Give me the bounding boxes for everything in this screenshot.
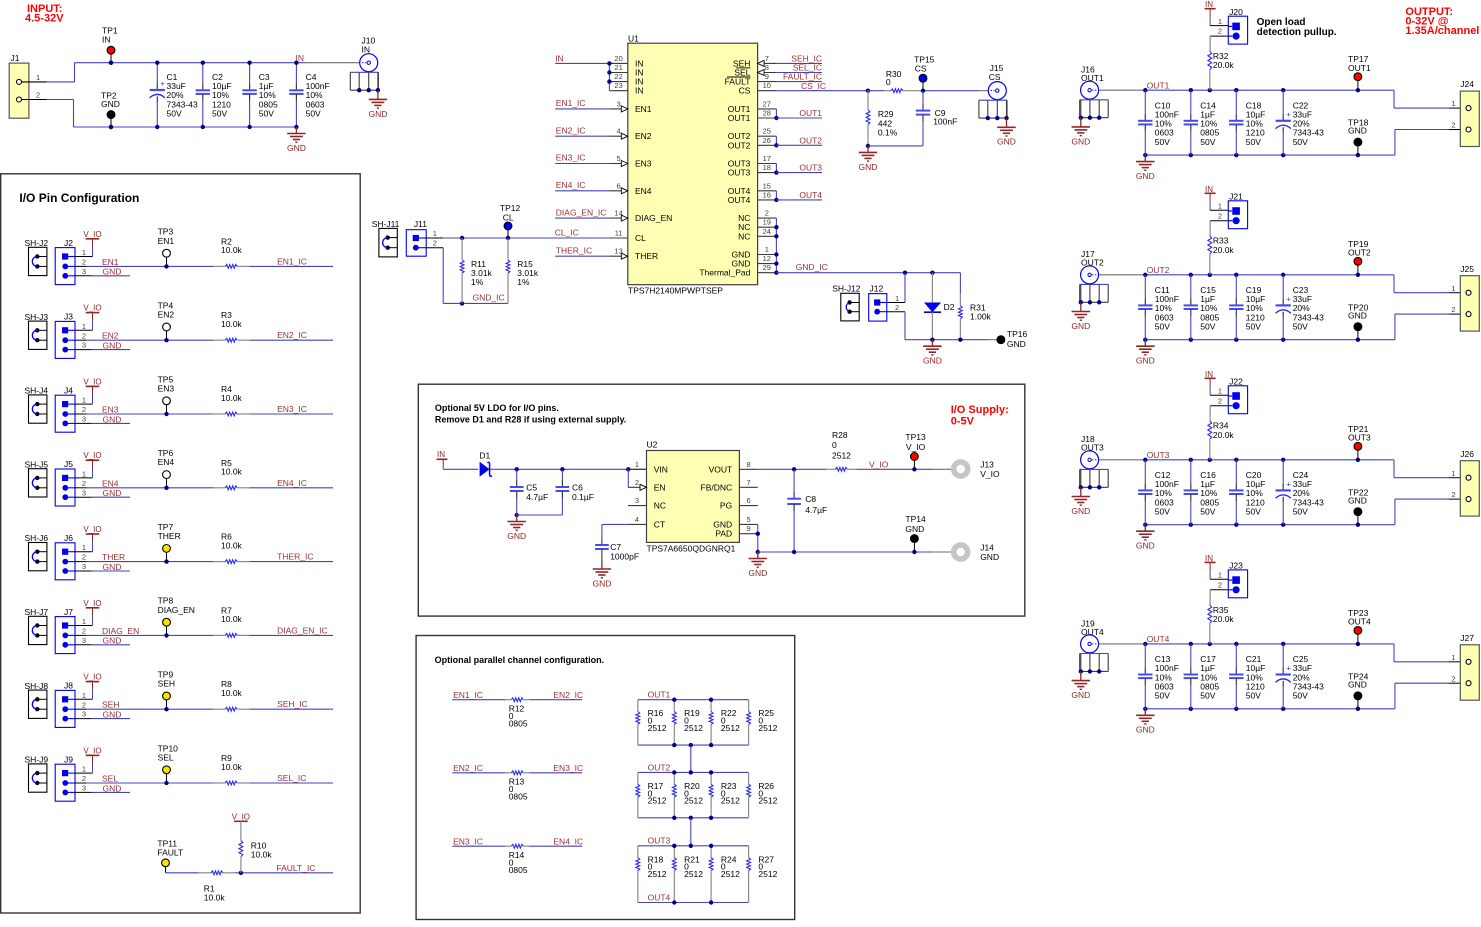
svg-text:19: 19 (763, 218, 771, 227)
svg-text:EN2_IC: EN2_IC (277, 330, 307, 340)
svg-text:1: 1 (895, 294, 899, 303)
svg-text:2: 2 (82, 553, 86, 562)
svg-text:GND: GND (923, 356, 942, 366)
svg-text:FB/DNC: FB/DNC (701, 482, 733, 492)
svg-text:0805: 0805 (509, 865, 528, 875)
svg-text:3: 3 (82, 562, 86, 571)
svg-text:OUT4: OUT4 (799, 190, 822, 200)
svg-text:9: 9 (765, 72, 769, 81)
svg-text:1: 1 (635, 460, 639, 469)
svg-text:IN: IN (555, 53, 564, 63)
svg-text:1: 1 (82, 691, 86, 700)
svg-text:I/O Pin Configuration: I/O Pin Configuration (19, 191, 139, 205)
svg-text:+: + (1286, 664, 1291, 673)
svg-text:Thermal_Pad: Thermal_Pad (699, 268, 750, 278)
svg-text:CT: CT (654, 519, 665, 529)
svg-text:OUT2: OUT2 (648, 762, 671, 772)
svg-text:8: 8 (747, 460, 751, 469)
svg-text:10.0k: 10.0k (251, 850, 273, 860)
svg-text:PG: PG (720, 501, 732, 511)
svg-text:50V: 50V (1200, 321, 1215, 331)
svg-text:2: 2 (82, 405, 86, 414)
svg-text:50V: 50V (1155, 691, 1170, 701)
svg-text:EN4: EN4 (635, 186, 652, 196)
svg-text:VIN: VIN (654, 464, 668, 474)
svg-text:2512: 2512 (684, 796, 703, 806)
svg-text:J22: J22 (1229, 377, 1243, 387)
svg-text:Optional 5V LDO for I/O pins.: Optional 5V LDO for I/O pins. (435, 403, 559, 413)
svg-text:GND: GND (287, 143, 306, 153)
svg-text:EN1: EN1 (158, 236, 175, 246)
svg-text:7: 7 (765, 54, 769, 63)
svg-text:18: 18 (763, 163, 771, 172)
svg-text:J3: J3 (64, 312, 73, 322)
svg-text:GND: GND (103, 414, 122, 424)
svg-text:25: 25 (763, 127, 771, 136)
svg-text:J24: J24 (1460, 79, 1474, 89)
svg-text:EN3_IC: EN3_IC (453, 836, 483, 846)
svg-text:2512: 2512 (721, 723, 740, 733)
svg-text:26: 26 (763, 136, 771, 145)
svg-text:J9: J9 (64, 754, 73, 764)
svg-text:21: 21 (614, 63, 622, 72)
svg-text:THER: THER (635, 251, 658, 261)
svg-text:2: 2 (82, 479, 86, 488)
svg-text:J23: J23 (1229, 561, 1243, 571)
svg-text:OUT2: OUT2 (1147, 265, 1170, 275)
svg-text:GND: GND (507, 531, 526, 541)
svg-text:0.1µF: 0.1µF (572, 492, 594, 502)
svg-text:EN4: EN4 (102, 478, 119, 488)
svg-text:V_IO: V_IO (232, 812, 250, 821)
svg-text:10.0k: 10.0k (221, 467, 243, 477)
svg-text:2: 2 (1218, 211, 1222, 220)
svg-text:3: 3 (82, 341, 86, 350)
svg-text:2512: 2512 (758, 869, 777, 879)
svg-text:2: 2 (82, 258, 86, 267)
svg-text:EN1_IC: EN1_IC (277, 256, 307, 266)
svg-text:4.5-32V: 4.5-32V (25, 13, 64, 25)
svg-text:GND: GND (1136, 541, 1155, 551)
svg-text:3: 3 (82, 415, 86, 424)
svg-text:3: 3 (82, 267, 86, 276)
svg-text:FAULT_IC: FAULT_IC (276, 863, 315, 873)
svg-text:THER_IC: THER_IC (556, 245, 592, 255)
svg-text:1: 1 (82, 322, 86, 331)
svg-text:J26: J26 (1460, 449, 1474, 459)
svg-text:EN2_IC: EN2_IC (453, 763, 483, 773)
svg-text:EN4: EN4 (158, 457, 175, 467)
svg-text:1: 1 (82, 765, 86, 774)
svg-text:0-5V: 0-5V (951, 416, 975, 428)
svg-text:THER_IC: THER_IC (277, 552, 313, 562)
svg-text:DIAG_EN_IC: DIAG_EN_IC (277, 625, 328, 635)
svg-text:C5: C5 (526, 482, 537, 492)
svg-text:EN3_IC: EN3_IC (277, 404, 307, 414)
svg-text:detection pullup.: detection pullup. (1257, 27, 1337, 38)
svg-text:1: 1 (1451, 99, 1455, 108)
svg-text:TP14: TP14 (905, 514, 926, 524)
svg-text:V_IO: V_IO (906, 442, 926, 452)
svg-text:J5: J5 (64, 459, 73, 469)
svg-text:50V: 50V (1246, 137, 1261, 147)
svg-text:2: 2 (1218, 396, 1222, 405)
svg-text:24: 24 (763, 227, 771, 236)
svg-text:10.0k: 10.0k (221, 688, 243, 698)
svg-text:U2: U2 (647, 440, 658, 450)
svg-text:GND: GND (592, 578, 611, 588)
svg-text:EN2_IC: EN2_IC (553, 690, 583, 700)
svg-text:GND: GND (1136, 356, 1155, 366)
svg-text:GND: GND (103, 710, 122, 720)
svg-text:1000pF: 1000pF (610, 552, 639, 562)
svg-text:EN1_IC: EN1_IC (556, 98, 586, 108)
svg-text:4.7µF: 4.7µF (526, 492, 548, 502)
svg-text:GND: GND (103, 488, 122, 498)
svg-text:R28: R28 (832, 430, 848, 440)
svg-text:2: 2 (1218, 27, 1222, 36)
svg-text:50V: 50V (1200, 506, 1215, 516)
svg-text:OUT2: OUT2 (799, 135, 822, 145)
svg-text:CL: CL (503, 212, 514, 222)
svg-text:1.35A/channel: 1.35A/channel (1405, 25, 1479, 37)
svg-text:GND: GND (1136, 725, 1155, 735)
svg-text:+: + (1286, 294, 1291, 303)
svg-text:20.0k: 20.0k (1213, 614, 1235, 624)
svg-text:SEL: SEL (158, 752, 174, 762)
svg-text:C7: C7 (610, 542, 621, 552)
svg-text:1.00k: 1.00k (970, 311, 992, 321)
svg-text:EN1: EN1 (635, 104, 652, 114)
svg-text:OUT3: OUT3 (728, 168, 751, 178)
svg-text:4: 4 (635, 515, 639, 524)
svg-text:V_IO: V_IO (83, 599, 101, 608)
svg-text:50V: 50V (1246, 321, 1261, 331)
svg-text:OUT3: OUT3 (799, 163, 822, 173)
svg-text:11: 11 (615, 229, 623, 238)
svg-text:1: 1 (82, 617, 86, 626)
svg-text:SH-J2: SH-J2 (25, 238, 49, 248)
svg-text:OUT4: OUT4 (1147, 634, 1170, 644)
svg-text:EN4_IC: EN4_IC (277, 478, 307, 488)
svg-text:3: 3 (635, 496, 639, 505)
svg-text:IN: IN (1205, 554, 1213, 563)
svg-text:10: 10 (763, 81, 771, 90)
svg-text:GND_IC: GND_IC (473, 292, 505, 302)
svg-text:2: 2 (1451, 674, 1455, 683)
svg-text:GND: GND (368, 109, 387, 119)
svg-text:10.0k: 10.0k (221, 762, 243, 772)
svg-text:28: 28 (763, 109, 771, 118)
svg-text:1: 1 (1451, 469, 1455, 478)
svg-text:SH-J7: SH-J7 (25, 607, 49, 617)
svg-text:EN1: EN1 (102, 257, 119, 267)
svg-text:OUT4: OUT4 (648, 892, 671, 902)
svg-text:50V: 50V (167, 108, 182, 118)
svg-text:SEH: SEH (102, 700, 119, 710)
svg-text:17: 17 (763, 154, 771, 163)
svg-text:GND: GND (1348, 310, 1367, 320)
svg-text:+: + (1286, 479, 1291, 488)
svg-text:4: 4 (617, 127, 621, 136)
svg-text:50V: 50V (1293, 321, 1308, 331)
svg-text:EN4_IC: EN4_IC (556, 180, 586, 190)
svg-text:IN: IN (296, 53, 305, 63)
svg-text:TPS7A6650QDGNRQ1: TPS7A6650QDGNRQ1 (647, 544, 736, 554)
svg-text:GND: GND (103, 267, 122, 277)
svg-text:IN: IN (362, 45, 371, 55)
svg-text:SEL: SEL (102, 774, 118, 784)
svg-text:EN2: EN2 (158, 310, 175, 320)
svg-text:GND: GND (1136, 171, 1155, 181)
svg-text:1: 1 (1218, 571, 1222, 580)
svg-text:C8: C8 (805, 494, 816, 504)
svg-text:TP12: TP12 (500, 203, 521, 213)
svg-text:20: 20 (614, 54, 622, 63)
svg-text:C6: C6 (572, 482, 583, 492)
svg-text:GND: GND (1071, 690, 1090, 700)
svg-text:9: 9 (747, 524, 751, 533)
svg-text:THER: THER (102, 552, 125, 562)
svg-text:3: 3 (82, 784, 86, 793)
svg-text:D2: D2 (944, 302, 955, 312)
svg-text:EN3: EN3 (635, 159, 652, 169)
svg-text:50V: 50V (306, 108, 321, 118)
svg-text:3: 3 (617, 99, 621, 108)
svg-text:2: 2 (36, 91, 40, 100)
svg-text:D1: D1 (479, 451, 490, 461)
svg-text:V_IO: V_IO (83, 230, 101, 239)
svg-text:EN3_IC: EN3_IC (553, 763, 583, 773)
svg-text:Optional parallel channel conf: Optional parallel channel configuration. (435, 655, 605, 665)
svg-text:SH-J8: SH-J8 (25, 681, 49, 691)
svg-text:1: 1 (82, 469, 86, 478)
svg-text:TPS7H2140MPWPTSEP: TPS7H2140MPWPTSEP (628, 286, 723, 296)
svg-text:IN: IN (1205, 370, 1213, 379)
svg-text:10.0k: 10.0k (221, 540, 243, 550)
svg-text:1%: 1% (517, 277, 530, 287)
svg-text:50V: 50V (1293, 137, 1308, 147)
svg-text:DIAG_EN_IC: DIAG_EN_IC (556, 207, 607, 217)
svg-text:1: 1 (82, 396, 86, 405)
svg-text:V_IO: V_IO (980, 469, 1000, 479)
svg-text:50V: 50V (212, 108, 227, 118)
svg-text:SH-J5: SH-J5 (25, 459, 49, 469)
svg-text:V_IO: V_IO (83, 673, 101, 682)
svg-text:NC: NC (738, 231, 750, 241)
svg-text:J8: J8 (64, 681, 73, 691)
svg-text:EN4_IC: EN4_IC (553, 836, 583, 846)
svg-text:1: 1 (433, 229, 437, 238)
svg-text:OUT4: OUT4 (1348, 617, 1371, 627)
svg-text:5: 5 (617, 154, 621, 163)
svg-text:2: 2 (1451, 490, 1455, 499)
svg-text:1: 1 (82, 248, 86, 257)
svg-text:50V: 50V (1200, 137, 1215, 147)
svg-text:CS: CS (739, 86, 751, 96)
svg-text:V_IO: V_IO (83, 377, 101, 386)
svg-text:50V: 50V (1293, 506, 1308, 516)
svg-text:THER: THER (158, 531, 181, 541)
svg-text:10.0k: 10.0k (221, 319, 243, 329)
svg-text:2: 2 (1218, 580, 1222, 589)
svg-text:1: 1 (1451, 284, 1455, 293)
svg-text:GND: GND (859, 162, 878, 172)
svg-text:GND: GND (103, 783, 122, 793)
svg-text:50V: 50V (1155, 321, 1170, 331)
svg-text:SH-J12: SH-J12 (832, 283, 861, 293)
svg-text:+: + (161, 79, 166, 88)
svg-text:OUT1: OUT1 (1348, 63, 1371, 73)
svg-text:V_IO: V_IO (83, 304, 101, 313)
svg-text:10.0k: 10.0k (221, 614, 243, 624)
svg-text:2512: 2512 (684, 723, 703, 733)
svg-text:TP13: TP13 (905, 432, 926, 442)
svg-text:3: 3 (82, 488, 86, 497)
svg-text:J11: J11 (414, 219, 427, 229)
svg-text:2512: 2512 (721, 869, 740, 879)
svg-text:GND: GND (1348, 126, 1367, 136)
svg-text:1: 1 (1218, 202, 1222, 211)
svg-text:2512: 2512 (721, 796, 740, 806)
svg-text:Remove D1 and R28 if using ext: Remove D1 and R28 if using external supp… (435, 415, 626, 425)
svg-text:IN: IN (1205, 185, 1213, 194)
svg-text:OUT1: OUT1 (728, 113, 751, 123)
svg-text:SH-J4: SH-J4 (25, 386, 49, 396)
svg-text:GND: GND (1348, 495, 1367, 505)
svg-text:GND: GND (1348, 679, 1367, 689)
svg-text:1: 1 (765, 245, 769, 254)
svg-text:EN2_IC: EN2_IC (556, 125, 586, 135)
svg-text:2512: 2512 (832, 450, 851, 460)
svg-text:DIAG_EN: DIAG_EN (635, 213, 672, 223)
svg-text:IN: IN (1205, 0, 1213, 9)
svg-text:2: 2 (433, 239, 437, 248)
svg-text:15: 15 (763, 181, 771, 190)
svg-text:100nF: 100nF (933, 116, 957, 126)
svg-text:GND: GND (103, 341, 122, 351)
svg-text:50V: 50V (1155, 506, 1170, 516)
svg-text:3: 3 (82, 710, 86, 719)
svg-text:OUT3: OUT3 (1348, 433, 1371, 443)
svg-text:EN2: EN2 (635, 131, 652, 141)
svg-text:GND: GND (1071, 321, 1090, 331)
svg-text:+: + (1286, 110, 1291, 119)
svg-text:OUT1: OUT1 (648, 690, 671, 700)
svg-text:SH-J11: SH-J11 (372, 219, 400, 229)
svg-text:PAD: PAD (715, 529, 732, 539)
svg-text:CS_IC: CS_IC (801, 81, 826, 91)
svg-text:OUT2: OUT2 (1348, 248, 1371, 258)
svg-text:20.0k: 20.0k (1213, 430, 1235, 440)
svg-text:0805: 0805 (509, 792, 528, 802)
svg-text:50V: 50V (1246, 691, 1261, 701)
svg-text:IN: IN (102, 35, 111, 45)
svg-text:SEL_IC: SEL_IC (277, 773, 306, 783)
svg-text:V_IO: V_IO (83, 451, 101, 460)
svg-text:J7: J7 (64, 607, 73, 617)
svg-text:J2: J2 (64, 238, 73, 248)
svg-text:50V: 50V (1155, 137, 1170, 147)
svg-text:2512: 2512 (648, 869, 667, 879)
svg-text:0.1%: 0.1% (878, 127, 898, 137)
svg-text:8: 8 (765, 63, 769, 72)
svg-text:1: 1 (36, 73, 40, 82)
svg-text:OUT2: OUT2 (728, 140, 751, 150)
svg-text:27: 27 (763, 99, 771, 108)
svg-text:50V: 50V (1293, 691, 1308, 701)
svg-text:22: 22 (614, 72, 622, 81)
svg-text:J21: J21 (1229, 192, 1243, 202)
svg-text:I/O Supply:: I/O Supply: (951, 404, 1009, 416)
svg-text:GND: GND (997, 137, 1016, 147)
svg-text:20.0k: 20.0k (1213, 245, 1235, 255)
svg-text:0: 0 (886, 77, 891, 87)
svg-text:2: 2 (82, 331, 86, 340)
svg-text:GND: GND (1071, 136, 1090, 146)
svg-text:DIAG_EN: DIAG_EN (102, 626, 139, 636)
svg-text:2512: 2512 (684, 869, 703, 879)
svg-text:1: 1 (1451, 653, 1455, 662)
svg-text:V_IO: V_IO (869, 459, 889, 469)
svg-text:FAULT: FAULT (157, 848, 183, 858)
svg-text:2512: 2512 (648, 723, 667, 733)
svg-text:2512: 2512 (758, 796, 777, 806)
svg-text:EN3_IC: EN3_IC (556, 153, 586, 163)
svg-text:VOUT: VOUT (709, 464, 733, 474)
svg-text:OUT1: OUT1 (1147, 81, 1170, 91)
svg-text:2: 2 (1451, 305, 1455, 314)
svg-text:4.7µF: 4.7µF (805, 505, 827, 515)
svg-text:GND: GND (103, 562, 122, 572)
svg-text:OUT1: OUT1 (799, 108, 822, 118)
svg-text:OUT3: OUT3 (1147, 450, 1170, 460)
svg-text:EN3: EN3 (102, 405, 119, 415)
svg-text:J12: J12 (870, 283, 884, 293)
svg-text:1: 1 (82, 543, 86, 552)
svg-text:GND: GND (980, 552, 999, 562)
svg-text:16: 16 (763, 190, 771, 199)
svg-text:OUT4: OUT4 (728, 195, 751, 205)
svg-text:SH-J9: SH-J9 (25, 755, 49, 765)
svg-text:TP16: TP16 (1007, 329, 1028, 339)
svg-text:7: 7 (747, 478, 751, 487)
svg-text:EN1_IC: EN1_IC (453, 690, 483, 700)
svg-text:J25: J25 (1460, 264, 1474, 274)
svg-text:SH-J3: SH-J3 (25, 312, 49, 322)
svg-text:6: 6 (617, 181, 621, 190)
svg-text:IN: IN (437, 450, 445, 459)
svg-text:V_IO: V_IO (83, 746, 101, 755)
svg-text:IN: IN (635, 86, 644, 96)
svg-text:SEH_IC: SEH_IC (277, 699, 308, 709)
svg-text:0: 0 (832, 440, 837, 450)
svg-text:20.0k: 20.0k (1213, 60, 1235, 70)
svg-text:CL_IC: CL_IC (555, 227, 579, 237)
svg-text:DIAG_EN: DIAG_EN (158, 605, 195, 615)
svg-text:1: 1 (1218, 17, 1222, 26)
svg-text:J6: J6 (64, 533, 73, 543)
svg-text:EN3: EN3 (158, 383, 175, 393)
svg-text:EN: EN (654, 482, 666, 492)
svg-text:2: 2 (1451, 121, 1455, 130)
svg-text:GND: GND (748, 568, 767, 578)
svg-text:2: 2 (82, 700, 86, 709)
svg-text:12: 12 (763, 254, 771, 263)
svg-text:50V: 50V (1246, 506, 1261, 516)
svg-text:2: 2 (82, 627, 86, 636)
svg-text:J27: J27 (1460, 633, 1474, 643)
